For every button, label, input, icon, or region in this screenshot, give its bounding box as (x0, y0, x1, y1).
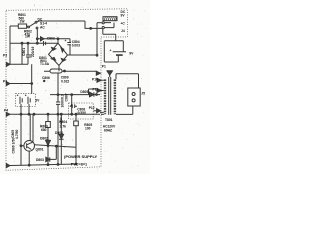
svg-text:C806 1/50: C806 1/50 (12, 138, 16, 154)
svg-text:0/35V: 0/35V (78, 111, 87, 115)
svg-text:C810: C810 (59, 117, 63, 125)
svg-text:0.022: 0.022 (61, 80, 69, 84)
svg-text:C801: C801 (22, 48, 26, 56)
svg-text:C807: C807 (64, 93, 68, 101)
svg-text:T1.5A: T1.5A (40, 62, 50, 66)
svg-text:P10: P10 (92, 78, 98, 82)
svg-text:+: + (70, 103, 72, 107)
svg-text:P4: P4 (4, 109, 8, 113)
svg-text:P1: P1 (102, 65, 106, 69)
svg-text:PVC=8=1: PVC=8=1 (71, 163, 87, 167)
svg-text:J5: J5 (141, 92, 145, 96)
svg-text:100: 100 (85, 127, 91, 131)
svg-text:0.003: 0.003 (72, 44, 80, 48)
svg-text:Q801: Q801 (36, 148, 44, 152)
svg-text:1000/6.3: 1000/6.3 (60, 94, 64, 107)
svg-text:C806: C806 (42, 76, 50, 80)
svg-text:D802: D802 (40, 137, 48, 141)
svg-text:+: + (65, 39, 67, 43)
svg-text:220/16: 220/16 (31, 47, 35, 57)
svg-text:4.7/50: 4.7/50 (15, 129, 19, 139)
svg-text:P2: P2 (3, 79, 7, 83)
svg-text:D804: D804 (55, 131, 63, 135)
svg-text:+C: +C (121, 22, 126, 26)
svg-text:680: 680 (41, 128, 47, 132)
svg-text:+: + (25, 94, 27, 98)
svg-text:(POWER SUPPLY: (POWER SUPPLY (64, 154, 98, 159)
svg-text:60HZ: 60HZ (104, 128, 112, 132)
svg-text:+: + (17, 94, 19, 98)
svg-text:P11: P11 (93, 88, 99, 92)
svg-text:P12: P12 (89, 106, 95, 110)
svg-text:T801: T801 (105, 118, 113, 122)
svg-text:D805: D805 (80, 90, 88, 94)
svg-text:AC: AC (40, 25, 45, 29)
svg-text:P3: P3 (3, 54, 7, 58)
svg-text:J4: J4 (121, 29, 125, 33)
svg-text:+: + (110, 49, 112, 53)
svg-text:C802: C802 (47, 37, 55, 41)
